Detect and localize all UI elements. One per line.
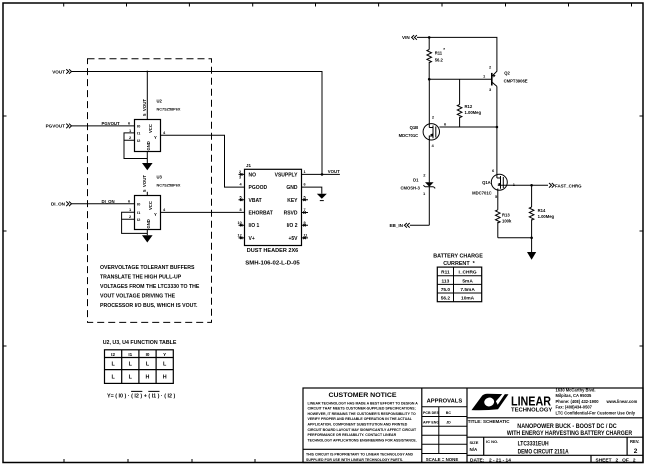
- approvals box: [422, 388, 467, 463]
- svg-text:Y: Y: [154, 135, 157, 140]
- wire Q1A source to FAST_CHRG: [507, 184, 548, 186]
- port PGVOUT: [46, 124, 72, 129]
- svg-text:5 VOUT: 5 VOUT: [142, 99, 147, 116]
- svg-text:J1: J1: [246, 163, 252, 168]
- wire U3 Y output pin4 to J1 EHORBAT: [161, 211, 245, 213]
- svg-text:R12: R12: [465, 104, 473, 109]
- resistor R14: [529, 185, 554, 238]
- no-connect marks right: [303, 199, 305, 239]
- svg-text:R13: R13: [502, 212, 510, 217]
- svg-text:PGVOUT: PGVOUT: [102, 121, 121, 126]
- svg-text:DI_ON: DI_ON: [51, 202, 66, 207]
- title block outer: [303, 388, 643, 463]
- svg-text:GND: GND: [286, 185, 298, 191]
- svg-text:56.2: 56.2: [441, 296, 451, 302]
- svg-text:10mA: 10mA: [461, 296, 475, 302]
- op-amp buffer U2 NC7SZ58P6X: [135, 99, 181, 152]
- svg-text:Y= ( I0 ) · ( I2 ) + ( I1 ) ·: Y= ( I0 ) · ( I2 ) + ( I1 ) · ( I2 ): [107, 393, 175, 399]
- svg-text:N/A: N/A: [470, 447, 479, 452]
- port EB_IN: [389, 223, 409, 228]
- svg-text:I1: I1: [128, 352, 132, 357]
- wire U2 I1-I2 tie to gnd: [124, 133, 147, 159]
- svg-text:CMPT3906E: CMPT3906E: [504, 78, 528, 83]
- svg-text:Y: Y: [163, 352, 166, 357]
- wire Q1A gate down: [497, 190, 499, 210]
- svg-text:1.00Meg: 1.00Meg: [538, 214, 555, 219]
- svg-text:2 - 21 - 14: 2 - 21 - 14: [489, 457, 511, 463]
- wire U3 GND pin: [146, 230, 148, 236]
- wire U3 I1-I2 tie to gnd: [122, 212, 148, 233]
- overvoltage note text: [100, 265, 200, 309]
- resistor R11: [427, 37, 445, 79]
- connector J1 DUST HEADER: [245, 163, 302, 266]
- svg-text:H: H: [146, 375, 150, 381]
- op-amp buffer U3 NC7SZ58P6X: [135, 175, 181, 230]
- ground U2: [142, 163, 153, 170]
- svg-text:V+: V+: [249, 236, 255, 242]
- svg-text:TECHNOLOGY: TECHNOLOGY: [511, 408, 553, 414]
- svg-text:VOUT: VOUT: [52, 70, 65, 75]
- port FAST_CHRG: [549, 183, 582, 189]
- svg-text:IC NO.: IC NO.: [486, 439, 498, 444]
- port VOUT: [52, 69, 71, 74]
- svg-text:PGOOD: PGOOD: [249, 185, 268, 191]
- svg-text:APPLICATION. COMPONENT SUBSTI: APPLICATION. COMPONENT SUBSTITUTION AND …: [308, 423, 408, 427]
- svg-text:R14: R14: [538, 208, 546, 213]
- svg-text:VOLTAGES FROM THE LTC3330 TO T: VOLTAGES FROM THE LTC3330 TO THE: [100, 284, 200, 290]
- wire Q1B gate row: [439, 126, 497, 128]
- svg-text:TITLE: SCHEMATIC: TITLE: SCHEMATIC: [468, 419, 510, 424]
- dashed box around buffers: [88, 59, 212, 323]
- svg-text:SMH-106-02-L-D-05: SMH-106-02-L-D-05: [245, 260, 300, 266]
- svg-text:5 VOUT: 5 VOUT: [142, 175, 147, 192]
- wire U3 VCC stub: [146, 192, 148, 196]
- svg-text:VERIFY PROPER AND RELIABLE OPE: VERIFY PROPER AND RELIABLE OPERATION IN …: [308, 417, 413, 421]
- svg-text:JD: JD: [446, 420, 451, 424]
- svg-text:EB_IN: EB_IN: [389, 223, 403, 228]
- svg-text:10: 10: [238, 221, 242, 225]
- wire U2 VCC pin5 to VOUT rail: [146, 72, 148, 120]
- svg-text:1: 1: [304, 170, 306, 174]
- svg-text:BATTERY CHARGE: BATTERY CHARGE: [433, 254, 483, 260]
- customer notice box: [303, 388, 422, 463]
- svg-text:RSVD: RSVD: [284, 211, 298, 217]
- wire U2 Y output pin4 to J1 PGOOD: [161, 135, 245, 187]
- node VOUT junction at U2 VCC: [146, 71, 148, 73]
- size/ic/rev row: [467, 437, 643, 455]
- wire DI_ON input: [72, 203, 135, 205]
- svg-text:R11: R11: [441, 270, 450, 276]
- node bottom rail junction: [530, 237, 533, 240]
- svg-text:APPROVALS: APPROVALS: [427, 399, 463, 405]
- svg-text:PROCESSOR I/O BUS, WHICH IS VO: PROCESSOR I/O BUS, WHICH IS VOUT.: [100, 303, 198, 309]
- svg-text:12: 12: [238, 234, 242, 238]
- svg-text:VIN: VIN: [402, 35, 410, 40]
- resistor R13: [496, 210, 512, 238]
- wire EB_IN: [410, 224, 429, 226]
- svg-text:THIS CIRCUIT IS PROPRIETARY TO: THIS CIRCUIT IS PROPRIETARY TO LINEAR TE…: [306, 453, 413, 457]
- svg-text:1630 McCarthy Blvd.: 1630 McCarthy Blvd.: [556, 388, 596, 393]
- svg-text:VOUT VOLTAGE DRIVING THE: VOUT VOLTAGE DRIVING THE: [100, 293, 176, 299]
- wire J1 GND: [302, 187, 322, 194]
- svg-text:NC7SZ58P6X: NC7SZ58P6X: [157, 108, 181, 112]
- svg-text:PCB DES: PCB DES: [423, 411, 440, 415]
- svg-text:U3: U3: [157, 175, 163, 180]
- wire bottom rail: [498, 237, 532, 239]
- svg-text:I2: I2: [111, 352, 115, 357]
- svg-text:SHEET 2 OF 2: SHEET 2 OF 2: [596, 457, 636, 463]
- svg-text:5mA: 5mA: [462, 278, 473, 284]
- svg-text:3: 3: [239, 176, 241, 180]
- svg-text:*: *: [443, 47, 445, 52]
- svg-text:LINEAR TECHNOLOGY HAS MADE A B: LINEAR TECHNOLOGY HAS MADE A BEST EFFORT…: [308, 401, 419, 405]
- svg-text:H: H: [163, 375, 167, 381]
- J1 right pin stubs: [302, 200, 309, 238]
- svg-text:Y: Y: [154, 212, 157, 217]
- svg-text:I/O 2: I/O 2: [287, 223, 298, 229]
- svg-text:Fax: (408)434-0507: Fax: (408)434-0507: [556, 405, 593, 410]
- svg-text:BC: BC: [446, 411, 452, 415]
- svg-text:R11: R11: [435, 50, 443, 55]
- transistor Q1A MDC701C: [472, 168, 516, 199]
- svg-text:CIRCUIT BOARD LAYOUT MAY SIGNI: CIRCUIT BOARD LAYOUT MAY SIGNIFICANTLY A…: [308, 428, 417, 432]
- svg-text:WITH ENERGY HARVESTING BATTERY: WITH ENERGY HARVESTING BATTERY CHARGER: [507, 430, 633, 437]
- svg-text:Milpitas, CA 95035: Milpitas, CA 95035: [556, 393, 593, 398]
- svg-text:U2, U3, U4 FUNCTION TABLE: U2, U3, U4 FUNCTION TABLE: [103, 340, 177, 346]
- svg-text:CUSTOMER NOTICE: CUSTOMER NOTICE: [329, 392, 398, 399]
- node R14 tap junction: [530, 184, 533, 187]
- svg-text:NC7SZ58P6X: NC7SZ58P6X: [157, 184, 181, 188]
- svg-text:1.00Meg: 1.00Meg: [465, 110, 482, 115]
- svg-text:REV.: REV.: [630, 439, 639, 444]
- wire VSUPPLY to VOUT: [302, 173, 340, 175]
- battery charge current table: [433, 254, 483, 302]
- svg-text:Q1B: Q1B: [410, 125, 419, 130]
- svg-text:MDC701C: MDC701C: [399, 133, 419, 138]
- port DI_ON: [51, 202, 72, 207]
- svg-text:CIRCUIT THAT MEETS CUSTOMER-SU: CIRCUIT THAT MEETS CUSTOMER-SUPPLIED SPE…: [308, 407, 416, 411]
- svg-text:DEMO CIRCUIT 2151A: DEMO CIRCUIT 2151A: [518, 448, 569, 455]
- resistor R12: [457, 79, 481, 127]
- svg-text:OVERVOLTAGE TOLERANT BUFFERS: OVERVOLTAGE TOLERANT BUFFERS: [100, 265, 195, 271]
- svg-text:TRANSLATE THE HIGH PULL-UP: TRANSLATE THE HIGH PULL-UP: [100, 274, 182, 280]
- wire VIN rail: [417, 37, 497, 70]
- title area: [467, 418, 643, 437]
- transistor Q2 CMPT3906E: [489, 65, 528, 92]
- svg-text:Q2: Q2: [504, 70, 510, 75]
- Linear Technology logo: [472, 394, 553, 414]
- svg-text:VOUT: VOUT: [328, 169, 340, 174]
- svg-text:PGVOUT: PGVOUT: [46, 124, 66, 129]
- svg-text:KEY: KEY: [287, 198, 298, 204]
- wire D1 to EB_IN: [428, 187, 430, 226]
- svg-text:PERFORMANCE OR RELIABILITY. C: PERFORMANCE OR RELIABILITY. CONTACT LINE…: [308, 433, 397, 437]
- node R11 bottom junction: [428, 78, 431, 81]
- svg-text:VCC: VCC: [148, 201, 153, 210]
- svg-text:GND: GND: [146, 219, 151, 228]
- svg-text:FAST_CHRG: FAST_CHRG: [555, 184, 582, 189]
- svg-text:75.0: 75.0: [441, 287, 451, 293]
- svg-text:NANOPOWER BUCK - BOOST DC / DC: NANOPOWER BUCK - BOOST DC / DC: [517, 423, 617, 430]
- svg-text:HOWEVER, IT REMAINS THE CUSTOM: HOWEVER, IT REMAINS THE CUSTOMER'S RESPO…: [308, 412, 416, 416]
- svg-text:+5V: +5V: [288, 236, 298, 242]
- ground J1: [317, 194, 327, 199]
- node VIN junction: [428, 36, 431, 39]
- svg-text:CMOSH-3: CMOSH-3: [400, 186, 420, 191]
- node gate row junction: [496, 126, 499, 129]
- svg-text:EHORBAT: EHORBAT: [249, 211, 273, 217]
- svg-text:U2: U2: [157, 99, 163, 104]
- svg-text:8: 8: [240, 208, 242, 212]
- date/sheet row: [470, 455, 636, 463]
- wire VOUT rail: [72, 72, 323, 175]
- svg-text:www.linear.com: www.linear.com: [606, 399, 638, 404]
- svg-text:D1: D1: [413, 178, 419, 183]
- svg-text:VCC: VCC: [148, 124, 153, 133]
- svg-text:DI_ON: DI_ON: [102, 199, 115, 204]
- svg-text:LTC3331EUH: LTC3331EUH: [518, 441, 549, 448]
- svg-text:APP ENG: APP ENG: [423, 420, 439, 424]
- function table: [103, 340, 177, 400]
- svg-text:NO: NO: [249, 172, 257, 178]
- svg-text:2: 2: [634, 448, 638, 455]
- address block: [556, 388, 638, 416]
- svg-text:7.5mA: 7.5mA: [460, 287, 475, 293]
- svg-text:CURRENT *: CURRENT *: [443, 261, 475, 267]
- svg-text:DATE:: DATE:: [470, 457, 485, 463]
- svg-text:I_CHRG: I_CHRG: [459, 270, 477, 276]
- diode D1 CMOSH-3 zener: [400, 173, 435, 197]
- svg-text:LTC Confidential-For Customer: LTC Confidential-For Customer Use Only: [556, 410, 636, 415]
- svg-text:56.2: 56.2: [435, 57, 444, 62]
- svg-text:DUST HEADER 2X6: DUST HEADER 2X6: [247, 248, 299, 254]
- wire U2 GND pin: [146, 152, 148, 164]
- svg-text:TECHNOLOGY APPLICATIONS ENGINE: TECHNOLOGY APPLICATIONS ENGINEERING FOR …: [308, 438, 417, 442]
- svg-text:GND: GND: [146, 141, 151, 150]
- svg-text:100k: 100k: [502, 219, 512, 224]
- svg-text:VBAT: VBAT: [249, 198, 262, 204]
- no-connect marks left: [240, 173, 242, 239]
- wire Q2 collector down to Q1A: [496, 86, 498, 174]
- transistor Q1B MDC701C: [399, 79, 440, 182]
- J1 left pin stubs: [239, 174, 245, 238]
- ground U3: [142, 235, 153, 242]
- svg-text:113: 113: [442, 278, 450, 284]
- svg-text:SIZE: SIZE: [470, 440, 479, 445]
- svg-text:VSUPPLY: VSUPPLY: [275, 172, 299, 178]
- port VIN: [402, 35, 417, 40]
- wire PGVOUT input: [72, 125, 135, 127]
- svg-text:I/O 1: I/O 1: [249, 223, 260, 229]
- svg-text:Q1A: Q1A: [482, 180, 491, 185]
- ground arrow right circuit: [531, 238, 533, 252]
- svg-text:Phone: (408) 432-1900: Phone: (408) 432-1900: [556, 399, 600, 404]
- node junction VOUT drop: [321, 173, 324, 176]
- svg-text:6: 6: [304, 183, 306, 187]
- svg-text:SUPPLIED FOR USE WITH LINEAR T: SUPPLIED FOR USE WITH LINEAR TECHNOLOGY …: [306, 458, 403, 462]
- wire base node row: [429, 78, 492, 80]
- svg-text:LINEAR: LINEAR: [511, 394, 551, 408]
- svg-text:MDC701C: MDC701C: [472, 191, 492, 196]
- svg-text:I0: I0: [146, 352, 150, 357]
- svg-text:SCALE = NONE: SCALE = NONE: [426, 457, 459, 462]
